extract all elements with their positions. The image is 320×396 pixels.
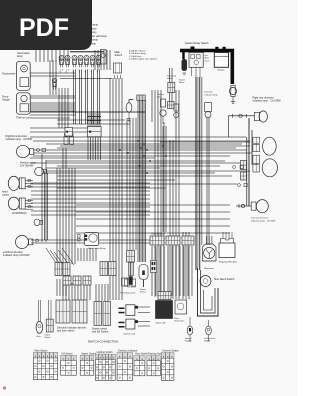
horn (36, 300, 43, 333)
ignition coil 1 (119, 305, 151, 316)
right rear indicator lamp (254, 111, 267, 122)
svg-text:D 10A (Charging, start, ignit: D 10A (Charging, start, ignition) (129, 58, 157, 61)
svg-text:indicator lamp - 12V/18W: indicator lamp - 12V/18W (253, 100, 282, 103)
wire rear-stop verticals (152, 68, 179, 232)
dimmer switch table (162, 350, 180, 381)
spark unit (156, 301, 173, 319)
horn switch table (134, 353, 149, 376)
connector hatch above B (87, 113, 101, 127)
svg-text:C 10A (Other): C 10A (Other) (129, 55, 142, 58)
wire mid horizontals (30, 115, 250, 173)
wire lower-left verticals to switches (57, 279, 90, 300)
pdf badge (0, 0, 92, 50)
main harness line (30, 111, 145, 113)
svg-text:Horn Switch: Horn Switch (135, 353, 149, 356)
svg-text:Starter Switch: Starter Switch (81, 353, 97, 356)
svg-text:lamp: lamp (17, 54, 23, 58)
bus nubs (191, 47, 195, 50)
svg-text:B: B (81, 70, 82, 72)
svg-text:A 10A (Fan Motor): A 10A (Fan Motor) (129, 50, 146, 53)
svg-text:Ignition Coil: Ignition Coil (124, 332, 136, 335)
svg-text:Head: Head (2, 192, 8, 194)
temp gauge (16, 93, 30, 114)
svg-text:Thermo unit: Thermo unit (16, 116, 30, 120)
wire pre-connector verticals (78, 248, 96, 261)
indicator lamp list labels (89, 24, 107, 46)
indicator lamps row (59, 55, 64, 67)
svg-text:12V60/55W(2): 12V60/55W(2) (12, 213, 27, 215)
wire (30, 73, 252, 243)
alternator (203, 236, 217, 261)
connector chain right lamps top (229, 114, 255, 137)
starter and kill switch block (94, 302, 102, 326)
wire connectors on mesh (233, 165, 244, 168)
svg-text:Front Stop switch: Front Stop switch (120, 292, 135, 295)
lighting connector (100, 262, 108, 276)
svg-text:indicator lamp 12V/21W: indicator lamp 12V/21W (3, 254, 30, 257)
wire stubs under badge (36, 50, 110, 70)
position lamp 2 (34, 219, 43, 226)
clutch switch (46, 319, 53, 332)
svg-text:B: B (62, 70, 63, 72)
kill switch small (125, 279, 136, 286)
battery bus wire (180, 51, 232, 85)
svg-text:Gauge: Gauge (2, 98, 10, 102)
fuse legend (129, 50, 157, 61)
starter relay box (189, 53, 203, 78)
svg-text:B: B (93, 70, 94, 72)
rear stop connector (168, 102, 175, 109)
pulse generator (175, 300, 187, 314)
svg-text:Switch: Switch (185, 339, 191, 342)
tail lamp (253, 137, 276, 155)
svg-text:Regulator/Rectifier: Regulator/Rectifier (219, 260, 237, 263)
clutch diode connector (55, 263, 62, 276)
svg-text:Rear stop: Rear stop (167, 74, 177, 77)
svg-text:B 15A (Head lamp): B 15A (Head lamp) (129, 52, 146, 55)
svg-text:12V 3W/4W: 12V 3W/4W (20, 165, 34, 168)
junction dots (119, 140, 167, 174)
svg-text:Side Stand Switch: Side Stand Switch (214, 278, 235, 281)
diode block (128, 262, 133, 275)
svg-text:B: B (68, 70, 69, 72)
regulator rectifier (219, 232, 235, 258)
harness connector (151, 261, 157, 273)
ignition coil 2 (119, 319, 151, 329)
wire vertical bundles (50, 60, 252, 301)
connector block A (65, 128, 73, 137)
svg-text:Direction: Direction (205, 91, 214, 94)
head lamp relay (84, 233, 98, 246)
starter motor (182, 59, 188, 75)
svg-text:switch: switch (167, 77, 174, 80)
lighting switch table (96, 351, 116, 380)
head lamp 2 (8, 197, 33, 210)
svg-text:B: B (99, 70, 100, 72)
svg-text:Main: Main (205, 58, 209, 60)
neutral switch (187, 317, 193, 341)
svg-text:Clutch switch: Clutch switch (151, 233, 165, 236)
svg-text:Switch: Switch (45, 336, 51, 339)
svg-text:Dimmer Switch: Dimmer Switch (163, 350, 180, 353)
harness connector block (137, 95, 145, 101)
svg-text:Switch: Switch (204, 339, 210, 342)
gauge illumination bulb (52, 78, 56, 89)
bus stub to starter motor (182, 52, 184, 59)
key lamp (101, 49, 107, 64)
svg-text:Grn: Grn (205, 55, 208, 57)
battery (214, 53, 228, 68)
svg-text:B: B (87, 70, 88, 72)
left front direction indicator lamp (16, 235, 33, 248)
wire left feeders (42, 154, 48, 242)
svg-text:Switch: Switch (115, 53, 123, 57)
svg-text:SWITCH CONNECTION: SWITCH CONNECTION (88, 340, 119, 344)
red mark (3, 386, 6, 389)
head lamp 1 (8, 176, 33, 190)
svg-text:Head Lamp Relay: Head Lamp Relay (88, 248, 106, 250)
svg-text:Alternator: Alternator (204, 267, 214, 270)
svg-text:Kill Switch: Kill Switch (62, 353, 74, 356)
wire bottom verticals right (119, 140, 192, 296)
connector block B (87, 127, 101, 137)
switch combs (63, 276, 71, 285)
left rear indicator lamp (251, 200, 268, 213)
svg-text:Generator: Generator (174, 319, 184, 322)
svg-text:Switch: Switch (140, 290, 146, 293)
side stand switch (200, 276, 211, 287)
kill switch table (61, 353, 77, 376)
svg-text:Tachometer: Tachometer (2, 72, 16, 76)
svg-text:Horn: Horn (37, 336, 41, 338)
mesh lamp sockets (64, 133, 74, 145)
starter lockout connector (127, 251, 135, 263)
svg-text:Lighting Switch: Lighting Switch (97, 351, 114, 354)
svg-text:PDF: PDF (19, 14, 69, 42)
right front direction indicator lamp (17, 145, 34, 157)
svg-text:and horn switch: and horn switch (57, 330, 75, 333)
svg-text:Main Switch: Main Switch (34, 350, 48, 353)
fuse on battery drop (229, 86, 236, 104)
spark unit connector comb (158, 292, 171, 300)
ground ticks under fuse (231, 102, 235, 104)
rear small relay cluster (241, 161, 247, 170)
wire more diagonals (58, 250, 70, 266)
wire diagonals (46, 248, 74, 268)
passing switch table (147, 353, 165, 376)
tachometer (16, 61, 30, 90)
svg-text:indicator lamp - 12V/8W: indicator lamp - 12V/8W (6, 138, 33, 141)
winker relay lamp (126, 100, 133, 123)
main switch table (33, 350, 57, 380)
direction indicator switch table (117, 350, 137, 381)
brake tail lamp (253, 155, 278, 177)
oil pressure switch (206, 320, 212, 341)
flasher relay (139, 265, 148, 288)
starter switch table (80, 353, 97, 376)
svg-text:Spark Unit: Spark Unit (156, 322, 167, 325)
svg-text:Unit: Unit (157, 96, 161, 99)
svg-text:Starter Relay Switch: Starter Relay Switch (185, 41, 209, 45)
relay feed marks (78, 235, 81, 241)
svg-text:Indicator lamp: Indicator lamp (205, 93, 219, 96)
svg-text:and Kill Switch: and Kill Switch (92, 331, 109, 334)
bottom connector combs (150, 236, 164, 245)
bulb collector line (60, 78, 112, 80)
front stop switch (122, 278, 128, 286)
svg-text:Left rear direction: Left rear direction (251, 217, 269, 220)
svg-text:Lamps: Lamps (2, 194, 10, 196)
fan motor switch (174, 104, 179, 118)
side stand loop wire (198, 268, 219, 316)
fan motor (129, 277, 133, 285)
svg-text:B: B (75, 70, 76, 72)
bulb wire code smudges (60, 70, 100, 74)
svg-text:indicator lamp - 12V15W: indicator lamp - 12V15W (251, 219, 276, 222)
direction indicator dimmer and horn switch (56, 300, 70, 323)
thermo switch (160, 99, 166, 124)
svg-text:Motor: Motor (179, 81, 184, 84)
svg-text:Battery: Battery (218, 69, 226, 72)
